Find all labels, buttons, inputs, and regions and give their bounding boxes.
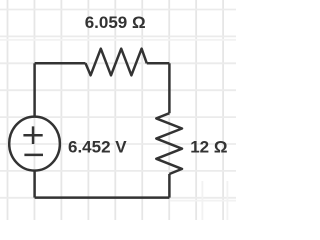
wire top-right horizontal segment <box>147 62 170 65</box>
svg-text:6.452 V: 6.452 V <box>68 137 127 156</box>
resistor R1 6.059 ohm zigzag <box>86 49 147 76</box>
wire right vertical upper segment <box>168 63 171 113</box>
wire right vertical lower segment <box>168 174 171 198</box>
svg-text:6.059 Ω: 6.059 Ω <box>85 13 146 32</box>
svg-text:12 Ω: 12 Ω <box>190 137 227 156</box>
voltage source V1 circle <box>9 117 60 171</box>
wire bottom horizontal <box>35 196 170 199</box>
wire left vertical upper segment <box>33 63 36 117</box>
wire left vertical lower segment <box>33 171 36 198</box>
minus sign of source <box>24 154 43 157</box>
grid background <box>0 0 236 220</box>
resistor R2 12 ohm zigzag <box>156 113 182 174</box>
wire top-left horizontal segment <box>35 62 86 65</box>
plus sign of source <box>23 126 42 144</box>
